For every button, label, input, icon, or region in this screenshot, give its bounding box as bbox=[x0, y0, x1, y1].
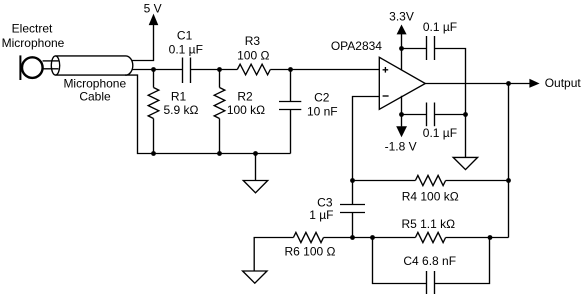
svg-text:C2: C2 bbox=[314, 90, 330, 104]
capacitor top 0.1uF plates bbox=[426, 36, 428, 60]
svg-text:OPA2834: OPA2834 bbox=[331, 39, 382, 53]
node: R5/R6/C3 junction bbox=[350, 235, 355, 240]
capacitor C2 branch wires bbox=[290, 70, 292, 102]
node: C4 right junction bbox=[488, 235, 493, 240]
svg-text:Microphone: Microphone bbox=[63, 76, 126, 90]
wire: feedback right rail bbox=[508, 84, 510, 238]
svg-text:R4 100 kΩ: R4 100 kΩ bbox=[402, 189, 459, 203]
resistor R5 1.1k horizontal bbox=[353, 237, 416, 239]
capacitor C1 plates bbox=[182, 58, 184, 84]
svg-text:C4 6.8 nF: C4 6.8 nF bbox=[403, 254, 456, 268]
wire: to top bypass cap bbox=[402, 48, 427, 50]
node: ground-rail junction to ground symbol bbox=[253, 151, 258, 156]
node: R2 to ground rail bbox=[217, 151, 222, 156]
svg-text:-1.8 V: -1.8 V bbox=[385, 140, 417, 154]
wire: 5V arrow stem down then left into cable bbox=[132, 25, 154, 61]
svg-text:100 Ω: 100 Ω bbox=[237, 48, 269, 62]
wire: rail to left ground symbol bbox=[255, 154, 257, 181]
wire: negative supply pin down bbox=[401, 96, 403, 127]
svg-text:R3: R3 bbox=[245, 34, 261, 48]
node: output junction to feedback bbox=[506, 81, 511, 86]
ground symbol for bypass caps bbox=[453, 157, 477, 169]
resistor R6 100 ohm horizontal bbox=[293, 232, 323, 242]
svg-text:Microphone: Microphone bbox=[2, 36, 65, 50]
capacitor C4 plates bbox=[426, 271, 428, 294]
svg-text:R5 1.1 kΩ: R5 1.1 kΩ bbox=[401, 217, 455, 231]
svg-text:R2: R2 bbox=[237, 89, 253, 103]
wire: to bottom bypass cap bbox=[402, 114, 427, 116]
resistor R3 100 ohm horizontal bbox=[237, 64, 270, 75]
svg-text:C1: C1 bbox=[177, 29, 193, 43]
svg-text:0.1 µF: 0.1 µF bbox=[423, 20, 457, 34]
op-amp + input symbol bbox=[383, 69, 389, 71]
power 5V arrow bbox=[149, 14, 159, 26]
capacitor C3 branch bbox=[352, 181, 354, 205]
wire: main signal wire segment from cable tip to C1 bbox=[132, 69, 182, 71]
resistor R2 100k vertical bbox=[219, 70, 221, 88]
wire: op-amp output bbox=[425, 83, 529, 85]
microphone cable cylinder body bbox=[56, 56, 133, 75]
node: junction main wire and R2 bbox=[217, 67, 222, 72]
svg-text:R1: R1 bbox=[171, 89, 187, 103]
wire: bottom bypass cap to ground column bbox=[435, 114, 466, 116]
power -1.8V arrow (down) bbox=[396, 126, 407, 137]
op-amp - input symbol bbox=[383, 95, 389, 97]
svg-text:0.1 µF: 0.1 µF bbox=[169, 42, 203, 56]
node: C4 left junction bbox=[370, 235, 375, 240]
node: junction main wire and C2 bbox=[288, 67, 293, 72]
svg-text:100 kΩ: 100 kΩ bbox=[227, 103, 265, 117]
power 3.3V arrow bbox=[397, 25, 407, 35]
node: positive supply and bypass cap bbox=[399, 46, 404, 51]
output arrow bbox=[529, 79, 539, 88]
svg-text:5.9 kΩ: 5.9 kΩ bbox=[164, 103, 199, 117]
ground symbol left (under rail) bbox=[243, 181, 267, 193]
electret microphone body circle bbox=[22, 57, 43, 78]
wire: C1 to R3 bbox=[191, 69, 238, 71]
node: bottom bypass cap to ground column bbox=[463, 112, 468, 117]
node: junction of main wire, 5V feed column and R1 bbox=[151, 67, 156, 72]
svg-text:Cable: Cable bbox=[79, 90, 111, 104]
wire: mic terminal stub lower bbox=[43, 68, 59, 70]
wire: top bypass cap to ground column bbox=[435, 49, 466, 158]
capacitor C3 plates bbox=[340, 204, 365, 206]
microphone cable left end ellipse bbox=[51, 56, 59, 75]
wire: mic terminal stub upper bbox=[43, 60, 59, 62]
svg-text:10 nF: 10 nF bbox=[307, 105, 338, 119]
capacitor C2 plates bbox=[279, 101, 301, 103]
node: R4 right junction bbox=[506, 178, 511, 183]
svg-text:R6 100 Ω: R6 100 Ω bbox=[285, 245, 336, 259]
node: R1 to ground rail bbox=[151, 151, 156, 156]
wire: 3.3V stem to op-amp positive supply pin bbox=[401, 34, 403, 71]
microphone back plate bar bbox=[19, 55, 21, 80]
resistor R4 100k horizontal bbox=[353, 180, 416, 182]
wire: inverting input to feedback column bbox=[353, 97, 380, 181]
svg-text:5 V: 5 V bbox=[144, 1, 162, 15]
svg-text:3.3V: 3.3V bbox=[389, 9, 414, 23]
resistor R1 5.9k vertical bbox=[153, 70, 155, 88]
node: R4 left junction bbox=[350, 178, 355, 183]
svg-text:0.1 µF: 0.1 µF bbox=[423, 126, 457, 140]
svg-text:1 µF: 1 µF bbox=[309, 208, 333, 222]
capacitor C4 branch wires bbox=[373, 238, 427, 284]
wire: R3 to op-amp + input bbox=[270, 69, 379, 71]
wire: cable shield down to ground rail bbox=[125, 75, 291, 153]
wire: R6 ground stem bbox=[254, 238, 293, 271]
ground symbol for R6 bbox=[243, 271, 267, 283]
svg-text:Electret: Electret bbox=[12, 22, 53, 36]
svg-text:Output: Output bbox=[545, 76, 581, 90]
op-amp U1 OPA2834 triangle bbox=[379, 57, 425, 109]
capacitor bottom 0.1uF plates bbox=[426, 103, 428, 127]
node: negative supply and bypass cap bbox=[399, 112, 404, 117]
